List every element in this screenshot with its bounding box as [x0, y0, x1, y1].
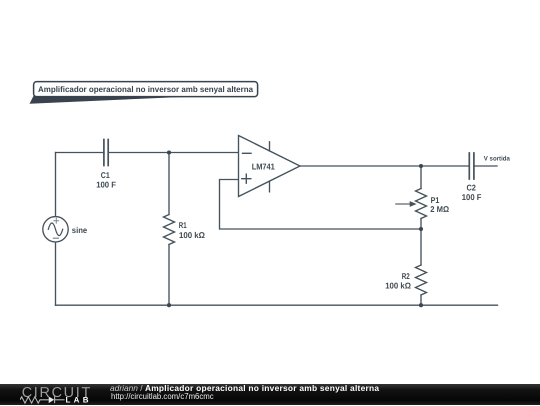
- wire: R2 bottom lead: [420, 295, 422, 305]
- footer text line 1: [110, 383, 379, 393]
- wire: top rail from C1 to op-amp inverting input: [108, 152, 238, 154]
- capacitor C1: [104, 140, 108, 166]
- wire: feedback from non-inverting input to P1 wiper node: [220, 180, 422, 230]
- svg-text:100 F: 100 F: [96, 180, 116, 190]
- svg-text:V sortida: V sortida: [484, 155, 510, 162]
- svg-text:Amplificador operacional no in: Amplificador operacional no inversor amb…: [38, 85, 253, 94]
- wire: bottom rail: [56, 304, 498, 306]
- annotation title box: [34, 82, 258, 97]
- svg-text:C1: C1: [101, 170, 110, 180]
- svg-text:100 kΩ: 100 kΩ: [179, 230, 205, 240]
- footer bar: [0, 384, 540, 406]
- wire: node between P1 and R2: [420, 229, 422, 265]
- wire: left rail upper segment: [55, 153, 57, 217]
- svg-text:100 F: 100 F: [462, 192, 482, 202]
- node: junction at C1/R1/top rail: [167, 150, 171, 154]
- wire: op-amp output to C2: [300, 165, 469, 167]
- wire: P1 top lead: [420, 166, 422, 189]
- wire: R1 bottom lead: [168, 245, 170, 306]
- svg-text:LAB: LAB: [66, 395, 92, 404]
- resistor R1: [164, 215, 175, 245]
- voltage source V1 sine: [43, 217, 68, 242]
- potentiometer P1: [396, 189, 427, 219]
- svg-text:2 MΩ: 2 MΩ: [430, 204, 449, 214]
- wire: left rail lower segment: [55, 242, 57, 305]
- annotation callout tail: [30, 94, 191, 104]
- footer text line 2: [111, 392, 214, 401]
- capacitor C2: [469, 153, 474, 179]
- op-amp U1 LM741: [239, 136, 301, 197]
- wire: P1 bottom lead: [420, 219, 422, 230]
- wire: C2 to output end: [474, 165, 497, 167]
- svg-text:LM741: LM741: [252, 161, 275, 171]
- wire: R1 top lead: [168, 153, 170, 215]
- svg-text:R1: R1: [179, 220, 187, 230]
- node: junction R2 bottom on bottom rail: [419, 303, 423, 307]
- wire: top rail left of C1: [56, 152, 104, 154]
- svg-text:sine: sine: [72, 225, 88, 235]
- CircuitLab logo: [20, 384, 98, 406]
- resistor R2: [416, 265, 427, 295]
- svg-text:C2: C2: [466, 183, 476, 193]
- node: junction R1 bottom on bottom rail: [167, 303, 171, 307]
- node: junction at P1/R2/feedback: [419, 227, 423, 231]
- node: junction at output/P1 top: [419, 164, 423, 168]
- svg-text:100 kΩ: 100 kΩ: [385, 280, 411, 290]
